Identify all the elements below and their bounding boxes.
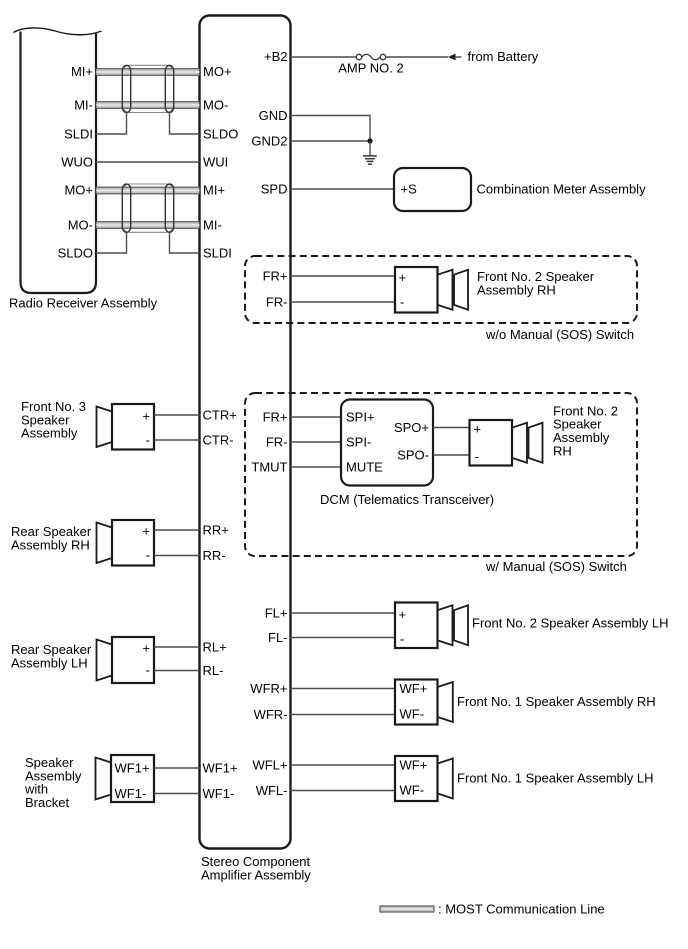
wire RR+	[154, 529, 200, 531]
wire WF1+	[154, 767, 200, 769]
wire GND2	[291, 140, 371, 142]
box: Radio Receiver Assembly (open-top with break wave)	[14, 28, 102, 293]
svg-text:SLDO: SLDO	[58, 246, 93, 261]
svg-text:FR+: FR+	[263, 410, 288, 425]
svg-text:-: -	[475, 449, 479, 464]
wire WFL-	[291, 790, 396, 792]
svg-text:RL-: RL-	[203, 663, 224, 678]
speaker Front No. 2 LH	[395, 603, 468, 649]
svg-text:Radio Receiver Assembly: Radio Receiver Assembly	[9, 296, 158, 311]
svg-text:MI-: MI-	[203, 218, 222, 233]
svg-text:SLDI: SLDI	[64, 127, 93, 142]
svg-text:RR-: RR-	[203, 548, 226, 563]
svg-text:RL+: RL+	[203, 640, 227, 655]
wire WUO/WUI	[96, 161, 200, 163]
wire SPD to +S	[291, 188, 395, 190]
svg-text:+: +	[399, 607, 407, 622]
wire FR+ (w/o SOS)	[291, 275, 396, 277]
svg-text:RR+: RR+	[203, 523, 229, 538]
svg-text:GND: GND	[259, 108, 288, 123]
svg-text:WFL-: WFL-	[256, 783, 288, 798]
svg-text:CTR+: CTR+	[203, 408, 237, 423]
wire shield drain right (upper) to SLDO	[170, 113, 200, 135]
svg-text:-: -	[146, 663, 150, 678]
svg-text:: MOST Communication Line: : MOST Communication Line	[438, 902, 605, 917]
wire RR-	[154, 555, 200, 557]
dashed box: w/o Manual (SOS) Switch	[245, 256, 637, 323]
svg-text:WFR+: WFR+	[250, 681, 287, 696]
speaker Front No. 1 LH	[395, 756, 453, 801]
wire SPO-	[433, 454, 470, 456]
svg-text:Assembly RH: Assembly RH	[477, 282, 556, 297]
svg-text:+: +	[474, 422, 482, 437]
svg-text:GND2: GND2	[251, 134, 287, 149]
wire CTR+	[154, 414, 200, 416]
svg-text:WF-: WF-	[400, 707, 425, 722]
box: Stereo Component Amplifier Assembly	[200, 16, 291, 849]
wire SPO+	[433, 427, 470, 429]
svg-text:DCM (Telematics Transceiver): DCM (Telematics Transceiver)	[320, 492, 494, 507]
wire FR- to DCM	[291, 441, 342, 443]
wire to ground	[369, 141, 371, 156]
svg-text:MO+: MO+	[203, 64, 232, 79]
shield loop left (lower)	[122, 184, 130, 232]
arrow from Battery	[448, 54, 456, 61]
wire shield drain left (upper) to SLDI	[96, 113, 127, 135]
dashed box: w/ Manual (SOS) Switch	[245, 393, 637, 556]
speaker Front No. 1 RH	[395, 680, 453, 725]
svg-text:+B2: +B2	[264, 49, 288, 64]
svg-text:-: -	[400, 294, 404, 309]
svg-text:Assembly RH: Assembly RH	[11, 537, 90, 552]
svg-text:SPI-: SPI-	[346, 435, 371, 450]
svg-text:w/o Manual (SOS) Switch: w/o Manual (SOS) Switch	[485, 327, 634, 342]
wire +B2 to fuse	[291, 56, 357, 58]
wire TMUT to DCM	[291, 466, 342, 468]
svg-text:WF1-: WF1-	[203, 786, 235, 801]
svg-text:from Battery: from Battery	[468, 49, 539, 64]
svg-text:MI+: MI+	[71, 64, 93, 79]
svg-text:Combination Meter Assembly: Combination Meter Assembly	[477, 182, 647, 197]
wire RL+	[154, 646, 200, 648]
box: DCM (Telematics Transceiver)	[341, 400, 433, 486]
left speaker: Rear Speaker Assembly LH	[97, 637, 155, 683]
svg-text:WF+: WF+	[400, 681, 428, 696]
svg-text:SPI+: SPI+	[346, 410, 375, 425]
shield outline (upper twisted pair)	[123, 65, 174, 112]
svg-text:Front No. 2 Speaker Assembly L: Front No. 2 Speaker Assembly LH	[472, 616, 669, 631]
junction dot	[367, 138, 372, 143]
speaker Front No. 2 RH (w/ SOS)	[470, 420, 543, 466]
svg-text:FR-: FR-	[266, 435, 288, 450]
svg-text:Amplifier Assembly: Amplifier Assembly	[201, 867, 311, 882]
wire WF1-	[154, 793, 200, 795]
svg-text:WF-: WF-	[400, 783, 425, 798]
svg-text:Front No. 1 Speaker Assembly L: Front No. 1 Speaker Assembly LH	[457, 771, 654, 786]
left speaker: Rear Speaker Assembly RH	[97, 520, 155, 566]
svg-text:+S: +S	[401, 182, 418, 197]
svg-text:+: +	[399, 270, 407, 285]
wire FR- (w/o SOS)	[291, 301, 396, 303]
speaker Front No. 2 RH (w/o SOS)	[395, 267, 468, 313]
box: Combination Meter Assembly (+S)	[394, 168, 471, 211]
svg-text:-: -	[400, 631, 404, 646]
svg-text:CTR-: CTR-	[203, 433, 234, 448]
svg-text:SPD: SPD	[261, 182, 288, 197]
svg-text:MO-: MO-	[203, 97, 228, 112]
wire MO+/MI+ MOST line	[96, 187, 200, 194]
svg-text:MO+: MO+	[64, 183, 93, 198]
svg-text:+: +	[142, 641, 150, 656]
svg-text:RH: RH	[553, 443, 572, 458]
wire WFL+	[291, 764, 396, 766]
svg-text:FR-: FR-	[266, 295, 288, 310]
svg-text:MUTE: MUTE	[346, 460, 383, 475]
wire MI-/MO- MOST line	[96, 102, 200, 109]
svg-text:SPO-: SPO-	[397, 448, 429, 463]
wire shield drain right (lower) to SLDI	[170, 232, 200, 253]
wire MO-/MI- MOST line	[96, 222, 200, 229]
svg-text:+: +	[142, 409, 150, 424]
svg-text:WUI: WUI	[203, 155, 228, 170]
svg-text:w/ Manual (SOS) Switch: w/ Manual (SOS) Switch	[485, 559, 627, 574]
svg-text:+: +	[142, 524, 150, 539]
left speaker: Speaker Assembly with Bracket	[96, 755, 155, 802]
legend MOST bar	[380, 906, 434, 912]
wire shield drain left (lower) to SLDO	[96, 232, 127, 253]
wire CTR-	[154, 439, 200, 441]
svg-text:FL+: FL+	[265, 606, 288, 621]
svg-text:Bracket: Bracket	[25, 795, 69, 810]
svg-text:WUO: WUO	[61, 155, 93, 170]
svg-text:SLDI: SLDI	[203, 246, 232, 261]
svg-text:SLDO: SLDO	[203, 127, 238, 142]
svg-text:WF1+: WF1+	[115, 761, 150, 776]
svg-text:MI+: MI+	[203, 183, 225, 198]
svg-text:SPO+: SPO+	[394, 420, 429, 435]
svg-text:WFR-: WFR-	[254, 707, 288, 722]
svg-text:WF1+: WF1+	[203, 761, 238, 776]
svg-text:WF+: WF+	[400, 758, 428, 773]
wire FL-	[291, 637, 396, 639]
shield outline (lower twisted pair)	[123, 184, 174, 232]
wire fuse to battery arrow	[386, 56, 448, 58]
svg-text:MO-: MO-	[68, 218, 93, 233]
svg-text:Assembly LH: Assembly LH	[11, 655, 88, 670]
wire RL-	[154, 670, 200, 672]
svg-text:MI-: MI-	[74, 97, 93, 112]
shield loop right (lower)	[165, 184, 173, 232]
svg-text:FL-: FL-	[268, 630, 288, 645]
ground symbol	[363, 156, 377, 164]
svg-text:WFL+: WFL+	[252, 758, 287, 773]
wire WFR+	[291, 688, 396, 690]
left speaker: Front No. 3 Speaker Assembly	[97, 404, 155, 450]
svg-text:TMUT: TMUT	[251, 460, 287, 475]
svg-text:-: -	[146, 548, 150, 563]
svg-text:Front No. 1 Speaker Assembly R: Front No. 1 Speaker Assembly RH	[457, 694, 656, 709]
fuse AMP NO. 2	[356, 54, 385, 60]
svg-text:-: -	[146, 432, 150, 447]
shield loop left (upper)	[122, 65, 130, 112]
wire FL+	[291, 612, 396, 614]
wire GND	[291, 116, 371, 142]
wire WFR-	[291, 714, 396, 716]
svg-text:WF1-: WF1-	[115, 786, 147, 801]
wire FR+ to DCM	[291, 416, 342, 418]
svg-text:FR+: FR+	[263, 269, 288, 284]
shield loop right (upper)	[165, 65, 173, 112]
wire MI+/MO+ MOST line	[96, 69, 200, 76]
svg-text:AMP NO. 2: AMP NO. 2	[338, 61, 404, 76]
svg-text:Assembly: Assembly	[21, 426, 78, 441]
